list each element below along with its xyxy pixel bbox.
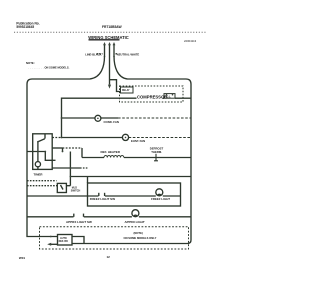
- svg-text:THERM.: THERM.: [151, 150, 162, 154]
- svg-text:DEF. HEATER: DEF. HEATER: [101, 150, 121, 154]
- svg-text:FREEZ LIGHT SW: FREEZ LIGHT SW: [90, 197, 116, 201]
- svg-text:5995218645: 5995218645: [16, 25, 34, 29]
- svg-text:COND. FAN: COND. FAN: [104, 120, 119, 124]
- svg-text:ON SOME MODELS ONLY: ON SOME MODELS ONLY: [124, 236, 157, 240]
- svg-text:DEF. BD: DEF. BD: [59, 240, 69, 243]
- svg-text:W01: W01: [19, 256, 26, 260]
- svg-text:APPRX LIGHT SW: APPRX LIGHT SW: [66, 220, 92, 224]
- svg-text:12: 12: [107, 255, 111, 259]
- svg-text:FRT18B5AW: FRT18B5AW: [102, 25, 122, 29]
- svg-text:..........: ..........: [28, 66, 47, 69]
- svg-text:O.L.: O.L.: [167, 97, 172, 99]
- svg-text:NOTE:: NOTE:: [26, 61, 35, 65]
- svg-text:RELAY: RELAY: [122, 89, 130, 92]
- svg-text:TIMER: TIMER: [34, 173, 44, 177]
- svg-text:SWITCH: SWITCH: [71, 189, 81, 192]
- svg-text:FREEZ LIGHT: FREEZ LIGHT: [151, 197, 170, 201]
- svg-text:NEUTRAL-WHITE: NEUTRAL-WHITE: [117, 52, 140, 56]
- svg-text:ON SOME MODELS.: ON SOME MODELS.: [45, 66, 70, 70]
- svg-text:COMPRESSOR: COMPRESSOR: [137, 95, 167, 100]
- svg-text:(NOTE): (NOTE): [134, 231, 143, 235]
- svg-text:APPRX LIGHT: APPRX LIGHT: [125, 220, 145, 224]
- svg-text:LINE-BLACK: LINE-BLACK: [85, 52, 101, 56]
- svg-text:EVAP. FAN: EVAP. FAN: [131, 139, 145, 143]
- svg-text:WIRING SCHEMATIC: WIRING SCHEMATIC: [88, 35, 128, 40]
- svg-text:22004113: 22004113: [184, 39, 197, 43]
